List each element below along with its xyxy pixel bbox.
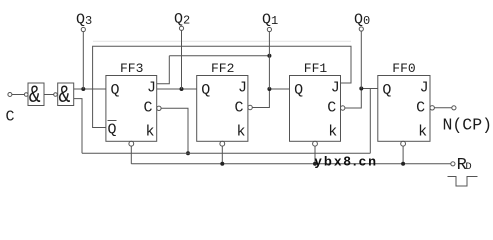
- wire Q0 rail: [82, 152, 370, 154]
- clock bubble FF2: [248, 105, 252, 109]
- svg-text:Q: Q: [76, 12, 85, 29]
- input terminal C: [8, 93, 12, 97]
- wire: [44, 94, 54, 96]
- wire reset riser FF3: [130, 146, 132, 164]
- wire FF3 Qbar feedback to FF1 J (wire A): [93, 46, 351, 127]
- output terminal Q1: [267, 27, 271, 31]
- node Q3 junction: [81, 87, 85, 91]
- bubble G2 output: [54, 93, 58, 97]
- svg-text:2: 2: [183, 14, 190, 28]
- svg-text:0: 0: [363, 14, 370, 28]
- svg-text:&: &: [59, 81, 71, 110]
- svg-text:J: J: [238, 80, 247, 97]
- wire Q3 column: [82, 32, 84, 89]
- svg-text:3: 3: [85, 14, 92, 28]
- svg-text:1: 1: [271, 14, 278, 28]
- node on Q1 column: [267, 54, 271, 58]
- svg-text:Q: Q: [111, 82, 120, 99]
- node on Q0 rail: [186, 151, 190, 155]
- svg-text:FF1: FF1: [304, 61, 328, 76]
- output terminal Q0: [359, 27, 363, 31]
- wire: [12, 94, 25, 96]
- wire G2 input1 / FF3 Q net: [74, 88, 106, 90]
- node Q2 junction: [180, 87, 184, 91]
- wire reset riser FF2: [221, 146, 223, 164]
- wire Q2 column: [181, 30, 183, 89]
- wire FF2 Q to FF3 J2: [157, 88, 197, 90]
- wire FF1 Q to FF2: [269, 88, 289, 90]
- flip-flop FF1: [290, 76, 341, 142]
- wire FF3 J1 to Q1 net: [157, 56, 170, 84]
- svg-text:Q: Q: [174, 11, 183, 28]
- bubble G1 output: [24, 93, 28, 97]
- svg-text:C: C: [6, 109, 15, 126]
- output terminal Q3: [81, 27, 85, 31]
- svg-text:Q: Q: [108, 122, 117, 139]
- input terminal RD: [451, 162, 455, 166]
- svg-text:J: J: [420, 80, 429, 97]
- svg-text:FF2: FF2: [211, 61, 234, 76]
- svg-text:D: D: [465, 161, 471, 173]
- wire FF3 C to Q0 rail: [161, 108, 188, 153]
- reset bubble FF2: [220, 141, 225, 146]
- reset bubble FF1: [313, 141, 318, 146]
- svg-text:k: k: [146, 124, 155, 141]
- flip-flop FF0: [378, 76, 430, 142]
- clock bubble FF1: [341, 106, 345, 110]
- svg-text:J: J: [147, 80, 156, 97]
- svg-text:Q: Q: [294, 82, 303, 99]
- flip-flop FF3: [106, 76, 157, 142]
- node: [220, 162, 224, 166]
- AND gate G1: [28, 83, 44, 106]
- svg-text:Q: Q: [201, 82, 210, 99]
- wire reset riser FF0: [402, 146, 404, 164]
- svg-text:FF3: FF3: [120, 61, 143, 76]
- wire Q1 column: [268, 32, 270, 89]
- svg-text:C: C: [235, 100, 244, 117]
- svg-text:FF0: FF0: [392, 61, 415, 76]
- wire reset riser FF1: [314, 146, 316, 164]
- wire Q0 column: [360, 31, 362, 88]
- wire FF0 Q to Q0 node: [361, 88, 378, 90]
- reset bubble FF0: [401, 141, 406, 146]
- svg-text:k: k: [328, 124, 337, 141]
- node: [313, 162, 317, 166]
- clock bubble FF0: [430, 106, 434, 110]
- svg-text:C: C: [144, 100, 153, 117]
- ghost wire: [93, 40, 351, 42]
- wire FF2 C to Q1 net: [252, 89, 269, 108]
- AND gate G2: [58, 83, 74, 106]
- svg-text:ybx8.cn: ybx8.cn: [315, 154, 379, 169]
- input terminal N(CP): [452, 106, 456, 110]
- clock bubble FF3: [157, 106, 161, 110]
- svg-text:N(CP): N(CP): [443, 116, 493, 135]
- svg-text:Q: Q: [354, 12, 363, 29]
- flip-flop FF2: [197, 76, 248, 142]
- svg-text:k: k: [418, 124, 427, 141]
- svg-text:&: &: [29, 81, 41, 110]
- node: [401, 162, 405, 166]
- wire Q1 to FF3 J (wire B): [169, 55, 269, 57]
- output terminal Q2: [179, 26, 183, 30]
- svg-text:C: C: [327, 100, 336, 117]
- pulse symbol: [448, 177, 478, 187]
- wire FF0 C to CP terminal: [434, 107, 451, 109]
- svg-text:Q: Q: [382, 82, 391, 99]
- wire RD rail: [131, 163, 451, 165]
- reset bubble FF3: [129, 141, 134, 146]
- node Q1 junction: [267, 87, 271, 91]
- svg-text:k: k: [237, 124, 246, 141]
- node Q0 junction: [359, 87, 363, 91]
- wire G2 input2 riser to Q0 rail: [74, 99, 82, 154]
- svg-text:Q: Q: [262, 12, 271, 29]
- wire FF1 C to Q0 net: [345, 89, 361, 109]
- svg-text:C: C: [416, 100, 425, 117]
- wire Q0 rail riser: [369, 89, 371, 154]
- svg-text:J: J: [331, 80, 340, 97]
